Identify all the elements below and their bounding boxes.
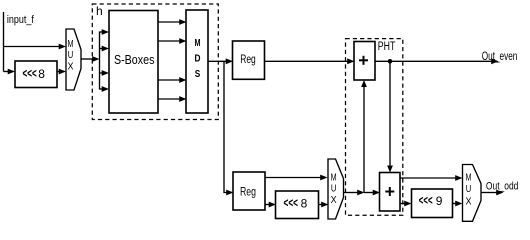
svg-text:X: X xyxy=(68,61,74,72)
svg-text:input_f: input_f xyxy=(7,14,35,26)
svg-text:D: D xyxy=(195,53,201,65)
svg-text:Out_odd: Out_odd xyxy=(486,181,519,193)
svg-text:M: M xyxy=(466,173,472,184)
svg-text:9: 9 xyxy=(436,194,443,208)
svg-text:M: M xyxy=(195,37,201,49)
svg-text:<<<: <<< xyxy=(284,195,299,210)
svg-text:<<<: <<< xyxy=(23,66,37,81)
svg-text:8: 8 xyxy=(301,197,308,211)
svg-text:Reg: Reg xyxy=(240,185,256,199)
svg-text:S-Boxes: S-Boxes xyxy=(114,53,155,67)
svg-text:M: M xyxy=(331,173,337,184)
svg-text:S: S xyxy=(195,68,201,80)
svg-text:M: M xyxy=(68,39,74,50)
svg-text:h: h xyxy=(96,4,103,18)
svg-text:X: X xyxy=(331,195,337,206)
svg-text:X: X xyxy=(466,196,472,207)
svg-text:<<<: <<< xyxy=(419,193,433,208)
svg-text:U: U xyxy=(331,184,337,195)
svg-text:Out_even: Out_even xyxy=(482,51,518,63)
svg-text:PHT: PHT xyxy=(378,41,396,53)
svg-text:U: U xyxy=(68,50,74,61)
svg-text:U: U xyxy=(466,184,472,195)
svg-text:Reg: Reg xyxy=(240,52,256,66)
svg-text:8: 8 xyxy=(38,67,45,81)
